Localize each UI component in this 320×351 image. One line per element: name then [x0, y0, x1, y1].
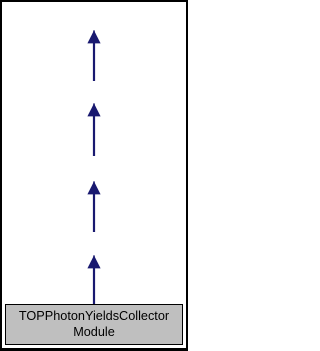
inheritance arrow 4 (bottom) [86, 255, 102, 305]
inheritance arrow 2 [86, 103, 102, 157]
node TOPPhotonYieldsCollectorModule [5, 304, 183, 345]
inheritance arrow 3 [86, 181, 102, 232]
inheritance arrow 1 (top) [86, 30, 102, 81]
